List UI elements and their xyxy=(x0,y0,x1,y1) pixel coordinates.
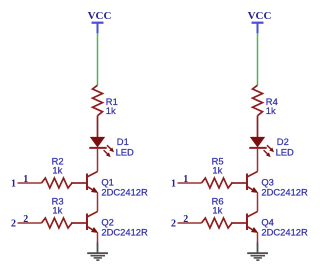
svg-text:D2: D2 xyxy=(277,136,289,147)
svg-text:VCC: VCC xyxy=(88,10,112,22)
svg-text:2: 2 xyxy=(171,218,176,229)
svg-text:2DC2412R: 2DC2412R xyxy=(261,227,308,238)
resistor R3 xyxy=(42,218,73,228)
power port VCC (left) xyxy=(88,10,112,34)
svg-text:1k: 1k xyxy=(52,204,62,215)
ground (right) xyxy=(247,243,268,261)
wire D1 cathode to Q1 collector xyxy=(97,148,99,172)
svg-text:2: 2 xyxy=(11,218,16,229)
svg-text:2DC2412R: 2DC2412R xyxy=(101,187,148,198)
wire D2 cathode to Q3 collector xyxy=(257,148,259,172)
svg-text:LED: LED xyxy=(116,146,134,157)
svg-text:1k: 1k xyxy=(266,105,276,116)
resistor R4 xyxy=(253,85,263,137)
transistor Q4 xyxy=(231,212,260,236)
resistor R1 xyxy=(93,85,103,137)
wire VCC to R1 xyxy=(97,33,99,85)
transistor Q1 xyxy=(71,172,100,196)
wire port 1 to R2 xyxy=(18,182,42,184)
wire Q1 emitter to Q2 collector xyxy=(97,193,99,212)
svg-text:LED: LED xyxy=(276,146,294,157)
wire Q4 emitter to ground xyxy=(257,233,259,243)
wire port 2 to R3 xyxy=(18,222,42,224)
svg-text:D1: D1 xyxy=(117,136,129,147)
svg-text:1k: 1k xyxy=(212,204,222,215)
LED D1 xyxy=(89,137,115,158)
svg-text:1: 1 xyxy=(171,178,176,189)
wire Q3 emitter to Q4 collector xyxy=(257,193,259,212)
power port VCC (right) xyxy=(248,10,272,34)
wire Q2 emitter to ground xyxy=(97,233,99,243)
wire VCC to R4 xyxy=(257,33,259,85)
svg-text:2DC2412R: 2DC2412R xyxy=(101,227,148,238)
wire port 2 to R6 xyxy=(178,222,202,224)
svg-text:2DC2412R: 2DC2412R xyxy=(261,187,308,198)
svg-text:1k: 1k xyxy=(212,164,222,175)
transistor Q2 xyxy=(71,212,100,236)
transistor Q3 xyxy=(231,172,260,196)
resistor R5 xyxy=(202,178,233,188)
resistor R6 xyxy=(202,218,233,228)
svg-text:1k: 1k xyxy=(52,164,62,175)
resistor R2 xyxy=(42,178,73,188)
svg-text:1k: 1k xyxy=(106,105,116,116)
wire port 1 to R5 xyxy=(178,182,202,184)
svg-text:1: 1 xyxy=(11,178,16,189)
LED D2 xyxy=(249,137,275,158)
svg-text:VCC: VCC xyxy=(248,10,272,22)
ground (left) xyxy=(87,243,108,261)
